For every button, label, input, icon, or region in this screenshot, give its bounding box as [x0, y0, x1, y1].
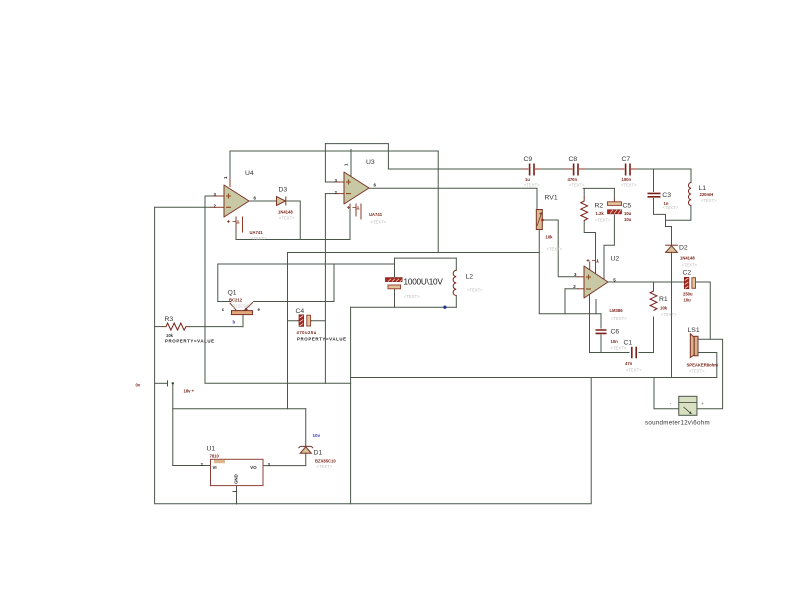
- svg-text:<TEXT>: <TEXT>: [524, 183, 540, 188]
- svg-text:1N4148: 1N4148: [278, 210, 293, 215]
- svg-text:100n: 100n: [622, 177, 632, 182]
- svg-text:18v +: 18v +: [184, 389, 195, 394]
- svg-text:VO: VO: [250, 465, 257, 470]
- svg-text:<TEXT>: <TEXT>: [626, 368, 642, 373]
- svg-text:<TEXT>: <TEXT>: [467, 288, 483, 293]
- svg-text:10n: 10n: [611, 339, 619, 344]
- svg-text:10u: 10u: [684, 298, 692, 303]
- svg-text:1.2k: 1.2k: [596, 211, 605, 216]
- svg-text:U3: U3: [366, 159, 375, 166]
- svg-text:LM386: LM386: [610, 308, 624, 313]
- svg-text:0v: 0v: [136, 383, 141, 388]
- svg-text:U2: U2: [611, 255, 620, 262]
- svg-text:+: +: [701, 401, 704, 406]
- svg-text:47n: 47n: [625, 361, 633, 366]
- svg-text:<TEXT>: <TEXT>: [371, 220, 387, 225]
- svg-text:<TEXT>: <TEXT>: [404, 294, 420, 299]
- svg-text:10k: 10k: [546, 235, 554, 240]
- svg-text:220mH: 220mH: [700, 192, 714, 197]
- svg-text:<TEXT>: <TEXT>: [682, 263, 698, 268]
- svg-text:Q1: Q1: [228, 290, 237, 297]
- svg-text:C5: C5: [623, 203, 632, 210]
- svg-text:D1: D1: [314, 450, 323, 457]
- svg-text:VI: VI: [213, 465, 217, 470]
- svg-text:BC212: BC212: [229, 298, 243, 303]
- svg-text:soundmeter12v\6ohm: soundmeter12v\6ohm: [645, 420, 710, 427]
- svg-text:C2: C2: [683, 270, 692, 277]
- svg-text:<TEXT>: <TEXT>: [701, 198, 717, 203]
- svg-text:<TEXT>: <TEXT>: [569, 183, 585, 188]
- svg-text:<TEXT>: <TEXT>: [689, 369, 705, 374]
- svg-text:C4: C4: [296, 308, 305, 315]
- svg-text:10v: 10v: [313, 433, 321, 438]
- svg-text:1u: 1u: [525, 177, 530, 182]
- svg-text:U4: U4: [245, 170, 254, 177]
- svg-text:R1: R1: [659, 296, 668, 303]
- svg-text:SPEAKER8ohm: SPEAKER8ohm: [687, 363, 719, 368]
- svg-text:<TEXT>: <TEXT>: [661, 312, 677, 317]
- svg-text:<TEXT>: <TEXT>: [611, 346, 627, 351]
- svg-text:10u: 10u: [624, 211, 632, 216]
- svg-text:10k: 10k: [660, 306, 668, 311]
- svg-text:PROPERTY=VALUE: PROPERTY=VALUE: [165, 339, 215, 344]
- svg-text:R3: R3: [165, 316, 174, 323]
- svg-text:BZX85C10: BZX85C10: [315, 459, 336, 464]
- svg-text:10u: 10u: [624, 217, 632, 222]
- svg-text:1N4148: 1N4148: [680, 256, 695, 261]
- svg-text:7810: 7810: [210, 454, 220, 459]
- svg-text:GND: GND: [234, 474, 239, 484]
- svg-text:PROPERTY=VALUE: PROPERTY=VALUE: [297, 337, 347, 342]
- svg-text:<TEXT>: <TEXT>: [621, 183, 637, 188]
- svg-text:470n: 470n: [568, 177, 578, 182]
- svg-text:10k: 10k: [166, 333, 174, 338]
- svg-text:D2: D2: [679, 245, 688, 252]
- svg-text:C9: C9: [524, 156, 533, 163]
- svg-text:UA741: UA741: [250, 230, 264, 235]
- svg-text:RV1: RV1: [545, 195, 558, 202]
- svg-text:<TEXT>: <TEXT>: [611, 316, 627, 321]
- svg-text:LS1: LS1: [688, 327, 700, 334]
- svg-text:<TEXT>: <TEXT>: [279, 216, 295, 221]
- svg-text:b: b: [233, 320, 236, 325]
- svg-text:Q2SC945: Q2SC945: [232, 304, 251, 309]
- svg-text:<TEXT>: <TEXT>: [317, 464, 333, 469]
- svg-text:<TEXT>: <TEXT>: [547, 247, 563, 252]
- svg-text:C8: C8: [569, 156, 578, 163]
- svg-text:<TEXT>: <TEXT>: [595, 218, 611, 223]
- svg-text:L2: L2: [466, 274, 474, 281]
- svg-text:C7: C7: [622, 156, 631, 163]
- svg-text:470u25u: 470u25u: [297, 330, 317, 335]
- svg-text:D3: D3: [279, 187, 288, 194]
- svg-text:C3: C3: [662, 192, 671, 199]
- svg-text:R2: R2: [595, 203, 604, 210]
- svg-text:250u: 250u: [683, 292, 693, 297]
- svg-text:UA741: UA741: [369, 212, 383, 217]
- svg-text:<TEXT>: <TEXT>: [251, 236, 267, 241]
- svg-text:1000U\10V: 1000U\10V: [404, 277, 444, 286]
- svg-text:U1: U1: [207, 446, 216, 453]
- svg-text:L1: L1: [699, 185, 707, 192]
- svg-text:C6: C6: [611, 329, 620, 336]
- svg-text:<TEXT>: <TEXT>: [663, 205, 679, 210]
